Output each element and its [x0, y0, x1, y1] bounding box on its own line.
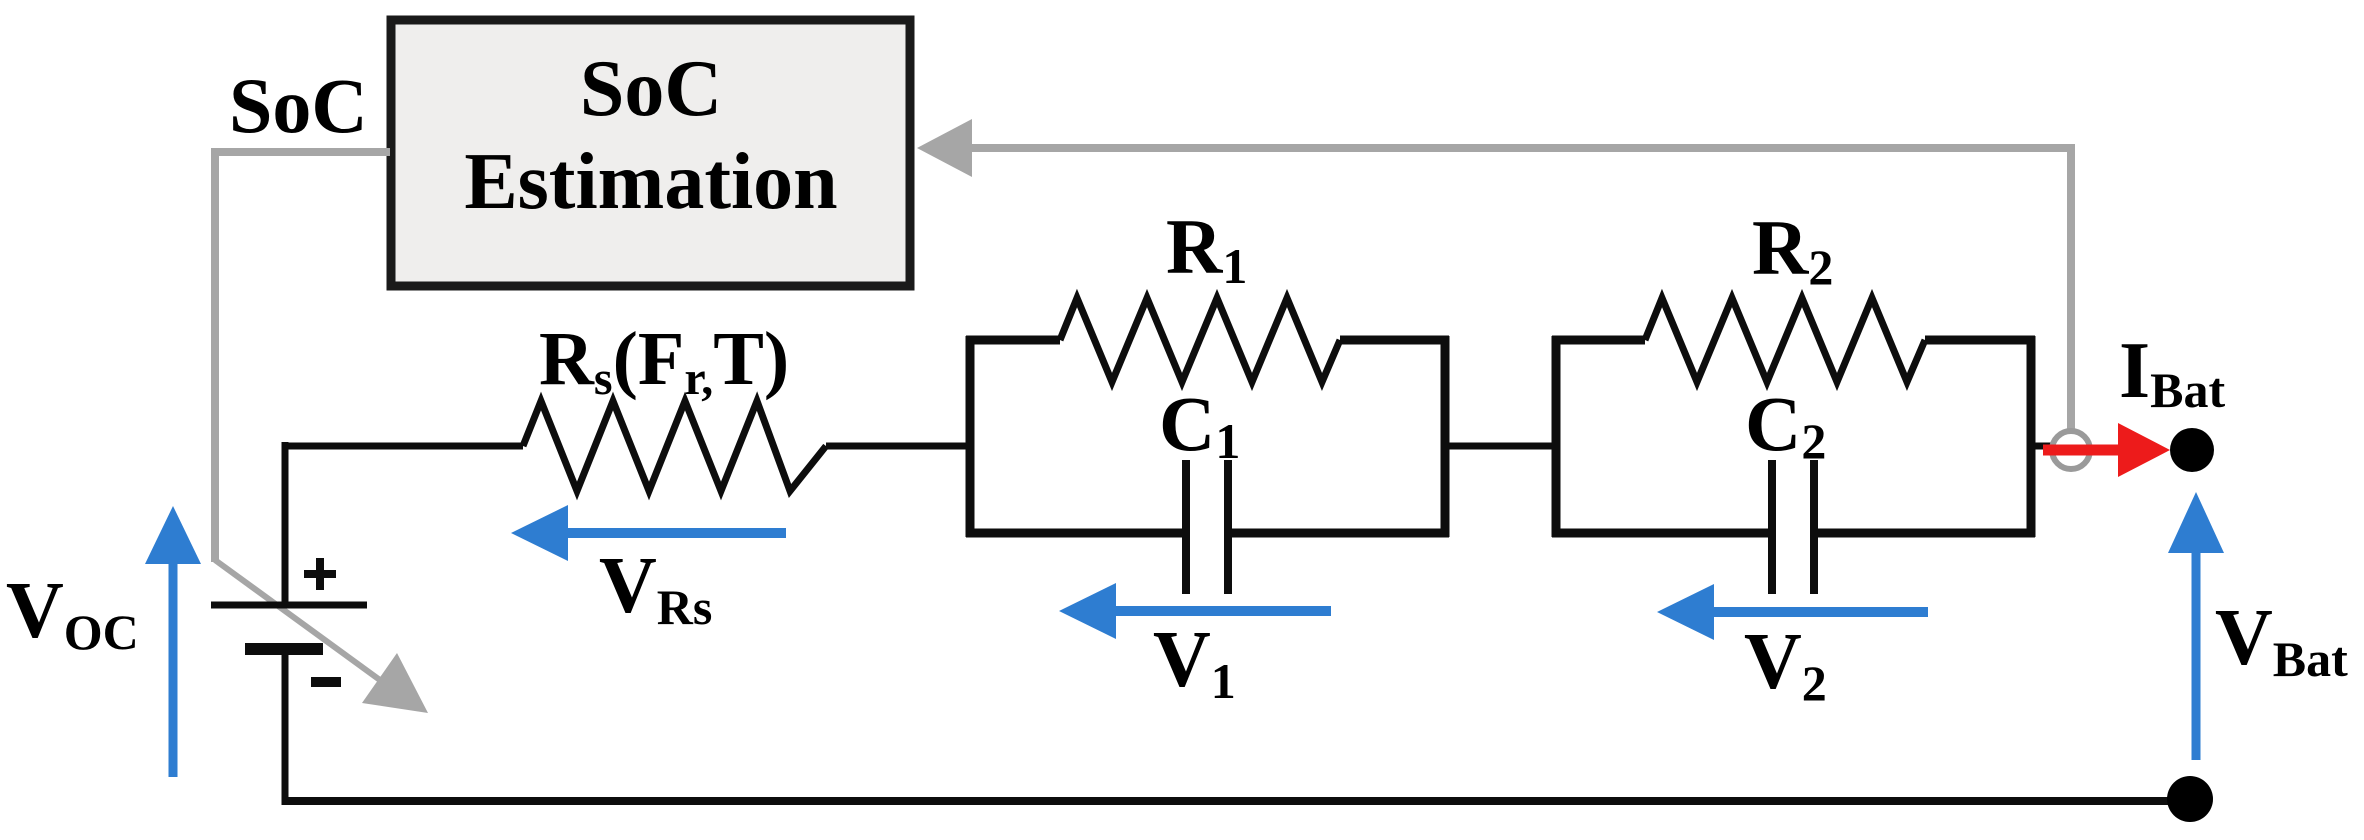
node output bottom: [2167, 776, 2213, 822]
wire gray SoC output: [215, 152, 390, 562]
svg-text:Estimation: Estimation: [464, 138, 837, 226]
wire bottom return: [282, 797, 2190, 805]
svg-text:SoC: SoC: [580, 45, 722, 133]
minus sign: [311, 677, 341, 687]
arrow V1: [1059, 583, 1331, 639]
node output top: [2170, 428, 2214, 472]
block U1 SoC Estimation: [391, 20, 910, 286]
svg-text:SoC: SoC: [229, 62, 368, 149]
arrow I_Bat red: [2043, 423, 2170, 477]
capacitor C1: [1186, 460, 1228, 594]
wire: [282, 649, 289, 805]
terminal circle: [2052, 431, 2090, 469]
resistor R1: [1060, 298, 1340, 382]
arrow V_Bat: [2168, 492, 2224, 760]
wire top main: [282, 443, 523, 450]
wire gray feedback from output node: [968, 148, 2071, 430]
arrowhead gray into SoC block: [917, 119, 972, 177]
resistor Rs: [523, 401, 826, 491]
svg-text:Rs(Fr,T): Rs(Fr,T): [539, 317, 789, 405]
wire between RC pairs: [1445, 443, 1556, 450]
capacitor C2: [1772, 460, 1814, 594]
battery V_OC: [211, 442, 367, 805]
battery plate positive: [211, 602, 367, 609]
wire to output: [2031, 443, 2053, 450]
arrow V2: [1657, 584, 1928, 640]
RC pair 2 frame: [1552, 336, 2035, 537]
RC pair 1 frame: [966, 336, 1449, 537]
arrow V_Rs: [511, 505, 786, 561]
plus sign: [304, 558, 336, 590]
battery plate negative: [245, 643, 323, 655]
wire: [826, 443, 970, 450]
resistor R2: [1645, 298, 1925, 382]
arrowhead gray onto battery: [362, 653, 428, 713]
arrow V_OC: [145, 506, 201, 777]
wire: [282, 442, 289, 605]
